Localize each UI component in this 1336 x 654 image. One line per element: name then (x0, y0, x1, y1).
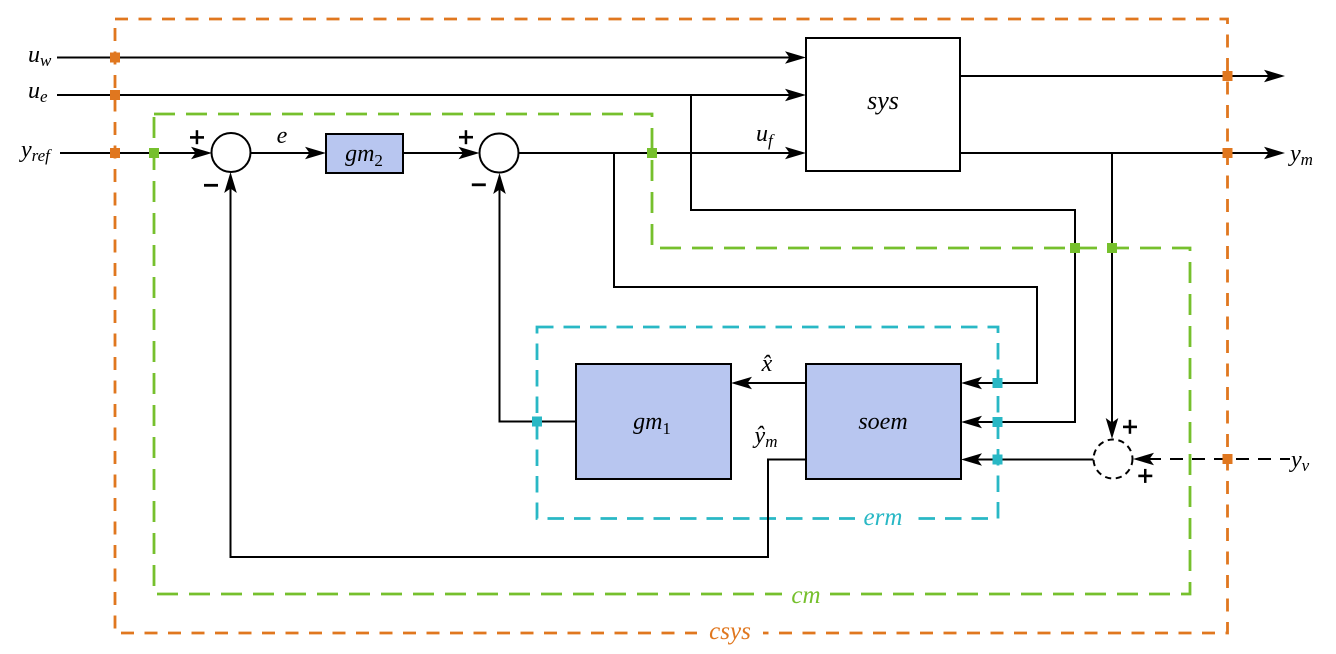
block gm1 (576, 364, 731, 479)
plus sign top of junction 3 (1123, 420, 1137, 434)
plus sign at summing junction 1 (190, 130, 204, 144)
block sys (806, 38, 960, 171)
plus sign at summing junction 2 (459, 130, 473, 144)
summing junction 2 (480, 134, 519, 173)
boundary erm (teal dashed rectangle) (537, 327, 998, 530)
wire sys top output (960, 75, 1270, 77)
node marker teal on soem input 2 (993, 417, 1003, 427)
node marker orange on y_ref (110, 148, 120, 158)
block soem (806, 364, 961, 479)
wire u_f (junction 2 to sys) (519, 152, 791, 154)
wire y_m output (960, 152, 1270, 154)
node marker orange on y_v (1223, 454, 1233, 464)
node marker teal on gm1 output (532, 417, 542, 427)
node marker orange on u_w (110, 53, 120, 63)
wire u_w (57, 57, 790, 59)
wire u_e (57, 94, 790, 96)
wire y_v (dashed) (1148, 458, 1290, 460)
wire gm1 output to junction 2 (500, 188, 577, 422)
node marker green on u_f (647, 148, 657, 158)
wire u_e branch to soem input 2 (691, 95, 1075, 422)
summing junction 1 (212, 133, 251, 172)
svg-text:e: e (277, 123, 288, 149)
plus sign bottom of junction 3 (1138, 469, 1152, 483)
svg-text:cm: cm (791, 582, 820, 609)
summing junction 3 (dashed) (1094, 440, 1133, 479)
wire u_f branch to soem input 1 (614, 153, 1037, 383)
minus sign at summing junction 1 (204, 184, 218, 187)
boundary csys (orange dashed rectangle) (115, 19, 1228, 646)
svg-text:erm: erm (864, 504, 903, 531)
wire junction 3 to soem input 3 (976, 459, 1094, 461)
node marker green on y_ref (149, 148, 159, 158)
wire y_ref (60, 152, 198, 154)
wire x_hat (soem to gm1) (746, 382, 806, 384)
svg-text:sys: sys (867, 86, 899, 115)
block gm2 (326, 134, 403, 173)
wire y_m_hat feedback (soem to junction 1) (231, 187, 807, 557)
boundary cm (green dashed polygon) (154, 114, 1190, 606)
node marker teal on soem input 1 (993, 378, 1003, 388)
node marker orange on u_e (110, 90, 120, 100)
svg-text:soem: soem (858, 409, 907, 435)
minus sign at summing junction 2 (472, 183, 486, 186)
node marker teal on soem input 3 (993, 455, 1003, 465)
node marker green on u_e branch (1070, 243, 1080, 253)
wire e (junction 1 to gm2) (251, 152, 313, 154)
node marker green on y_m branch (1107, 243, 1117, 253)
svg-text:x̂: x̂ (761, 351, 773, 377)
node marker orange on y_m (1223, 148, 1233, 158)
svg-text:csys: csys (709, 618, 751, 645)
node marker orange on sys top output (1223, 71, 1233, 81)
wire gm2 to junction 2 (403, 152, 466, 154)
wire y_m branch down to junction 3 (1111, 153, 1113, 424)
